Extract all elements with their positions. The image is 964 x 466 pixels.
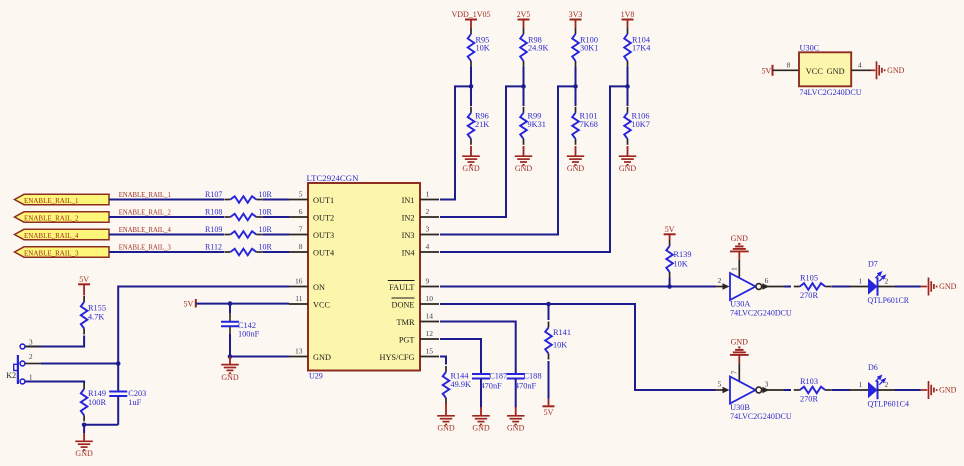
svg-text:GND: GND <box>313 353 331 362</box>
node DONE/R141 <box>546 302 551 307</box>
ic U29 LTC2924CGN <box>289 174 439 380</box>
wire R112 to U29 <box>263 251 290 253</box>
svg-text:21K: 21K <box>475 120 489 129</box>
svg-text:U30C: U30C <box>800 44 820 53</box>
svg-text:D6: D6 <box>868 363 878 372</box>
svg-text:C187: C187 <box>489 371 507 380</box>
svg-text:5V: 5V <box>665 225 675 234</box>
svg-text:TMR: TMR <box>397 318 415 327</box>
svg-text:GND: GND <box>515 164 533 173</box>
node divider 3 <box>573 84 578 89</box>
port ENABLE_RAIL_3 <box>15 247 110 258</box>
svg-text:GND: GND <box>731 234 749 243</box>
svg-text:49.9K: 49.9K <box>451 380 472 389</box>
svg-text:R144: R144 <box>451 371 470 380</box>
wire R109 to U29 <box>263 234 290 236</box>
power flag 5V (R155) <box>78 275 90 296</box>
svg-text:PGT: PGT <box>399 335 415 344</box>
resistor R109 <box>205 225 273 238</box>
svg-text:1: 1 <box>859 276 863 285</box>
ground divider 3 <box>567 146 585 173</box>
capacitor C203 <box>109 364 146 425</box>
ground (C188) <box>507 407 525 433</box>
svg-text:100nF: 100nF <box>238 329 260 338</box>
ground (C187) <box>472 407 490 433</box>
svg-text:GND: GND <box>887 66 905 75</box>
svg-text:1: 1 <box>426 189 430 198</box>
resistor R139 <box>666 240 691 287</box>
wire to IN2 <box>440 86 524 217</box>
svg-text:R155: R155 <box>88 304 106 313</box>
svg-text:QTLP601CR: QTLP601CR <box>868 296 910 305</box>
svg-text:100R: 100R <box>88 398 106 407</box>
ground divider 4 <box>619 146 637 173</box>
ground (U30A OE) <box>730 234 749 277</box>
svg-text:5: 5 <box>718 380 722 389</box>
wire K2 pin 2 <box>41 363 118 365</box>
svg-text:3V3: 3V3 <box>569 10 583 19</box>
net label ENABLE_RAIL_3 <box>119 244 171 252</box>
svg-text:4: 4 <box>426 242 430 251</box>
svg-text:ENABLE_RAIL_3: ENABLE_RAIL_3 <box>119 244 171 252</box>
svg-text:74LVC2G240DCU: 74LVC2G240DCU <box>800 88 862 97</box>
resistor R104 <box>624 28 651 67</box>
svg-text:12: 12 <box>426 329 434 338</box>
power flag 2V5 <box>517 10 531 28</box>
net label ENABLE_RAIL_4 <box>119 226 171 234</box>
net label ENABLE_RAIL_2 <box>119 209 171 217</box>
svg-text:R108: R108 <box>205 208 222 217</box>
svg-text:10R: 10R <box>259 190 273 199</box>
resistor R108 <box>205 208 273 221</box>
wire U30B to R103 <box>784 389 791 391</box>
svg-text:C188: C188 <box>524 371 542 380</box>
net label ENABLE_RAIL_1 <box>119 191 171 199</box>
wire TMR to C188 <box>440 322 516 370</box>
wire 2V5 divider <box>523 67 525 86</box>
ground (D7) <box>929 278 957 296</box>
ground divider 2 <box>515 146 533 173</box>
svg-text:DONE: DONE <box>391 300 414 309</box>
ground (C142) <box>221 357 239 382</box>
svg-text:GND: GND <box>939 282 957 291</box>
svg-text:3: 3 <box>765 380 769 389</box>
svg-text:GND: GND <box>437 424 455 433</box>
svg-text:R112: R112 <box>205 243 222 252</box>
svg-text:9K31: 9K31 <box>528 120 546 129</box>
wire R103 to D6 <box>831 389 850 391</box>
svg-text:VCC: VCC <box>806 67 824 76</box>
node R149/C203 <box>82 423 87 434</box>
wire GND pin 13 <box>230 356 289 358</box>
svg-text:GND: GND <box>507 424 525 433</box>
power flag 5V (U30C) <box>762 65 773 76</box>
svg-text:10: 10 <box>426 294 434 303</box>
op-amp U30A <box>716 267 792 318</box>
node divider 4 <box>625 84 630 89</box>
svg-text:470nF: 470nF <box>515 381 537 390</box>
resistor R100 <box>572 28 598 67</box>
ground (R149) <box>75 433 93 458</box>
svg-text:LTC2924CGN: LTC2924CGN <box>307 174 359 183</box>
svg-text:1V8: 1V8 <box>621 10 635 19</box>
op-amp U30B <box>716 370 792 421</box>
svg-text:ENABLE_RAIL_2: ENABLE_RAIL_2 <box>119 209 171 217</box>
svg-text:OUT2: OUT2 <box>313 213 334 222</box>
svg-text:IN2: IN2 <box>402 213 415 222</box>
ground (U30B OE) <box>730 338 749 381</box>
svg-text:K2: K2 <box>6 371 16 380</box>
power flag 5V (R141) <box>543 361 555 417</box>
svg-text:5: 5 <box>299 189 303 198</box>
power flag 5V (VCC) <box>184 299 196 308</box>
node VCC/C142 <box>228 301 233 306</box>
svg-text:2: 2 <box>718 276 722 285</box>
svg-text:17K4: 17K4 <box>632 43 651 52</box>
svg-text:270R: 270R <box>800 291 818 300</box>
svg-text:IN3: IN3 <box>402 231 415 240</box>
svg-text:U29: U29 <box>309 371 323 380</box>
svg-text:2: 2 <box>885 380 889 389</box>
svg-text:GND: GND <box>221 373 239 382</box>
wire to IN4 <box>440 86 628 252</box>
wire PGT to C187 <box>440 339 481 369</box>
svg-text:ENABLE_RAIL_1: ENABLE_RAIL_1 <box>119 191 171 199</box>
svg-text:5V: 5V <box>79 275 89 284</box>
svg-text:C203: C203 <box>128 389 146 398</box>
node C142/GND <box>228 354 233 359</box>
svg-text:10K: 10K <box>553 340 567 349</box>
svg-text:OUT1: OUT1 <box>313 196 334 205</box>
svg-text:D7: D7 <box>868 259 878 268</box>
svg-text:5V: 5V <box>762 67 772 76</box>
port ENABLE_RAIL_4 <box>15 229 110 240</box>
wire D7 to GND <box>895 286 927 288</box>
wire R107 to U29 <box>263 199 290 201</box>
svg-text:1: 1 <box>730 267 739 271</box>
port ENABLE_RAIL_2 <box>15 212 110 223</box>
svg-text:ENABLE_RAIL_4: ENABLE_RAIL_4 <box>119 226 171 234</box>
svg-text:9: 9 <box>426 276 430 285</box>
ground divider 1 <box>462 146 480 173</box>
svg-text:74LVC2G240DCU: 74LVC2G240DCU <box>730 412 792 421</box>
svg-text:ENABLE_RAIL_2: ENABLE_RAIL_2 <box>24 214 79 223</box>
svg-text:VDD_1V05: VDD_1V05 <box>451 10 490 19</box>
svg-text:10R: 10R <box>259 243 273 252</box>
svg-text:10K: 10K <box>674 260 688 269</box>
wire 3V3 divider <box>575 67 577 86</box>
resistor R96 <box>468 86 490 144</box>
resistor R155 <box>81 296 106 335</box>
capacitor C142 <box>221 304 260 357</box>
svg-text:U30A: U30A <box>730 300 750 309</box>
wire to IN3 <box>440 86 576 234</box>
svg-text:13: 13 <box>295 346 303 355</box>
resistor R141 <box>545 304 571 360</box>
ground (R144) <box>437 403 455 433</box>
wire VCC net <box>196 303 289 305</box>
svg-text:11: 11 <box>295 294 302 303</box>
svg-text:2: 2 <box>29 352 33 361</box>
svg-text:8: 8 <box>299 242 303 251</box>
resistor R101 <box>572 86 598 144</box>
resistor R106 <box>624 86 650 144</box>
svg-text:QTLP601C4: QTLP601C4 <box>868 399 910 408</box>
wire R108 to U29 <box>263 216 290 218</box>
svg-text:R141: R141 <box>553 328 571 337</box>
svg-text:U30B: U30B <box>730 403 750 412</box>
svg-text:OUT4: OUT4 <box>313 248 335 257</box>
svg-text:ENABLE_RAIL_1: ENABLE_RAIL_1 <box>24 196 79 205</box>
svg-text:R103: R103 <box>800 377 818 386</box>
wire VDD_1V05 divider <box>470 67 472 86</box>
svg-text:1uF: 1uF <box>128 398 141 407</box>
svg-text:7: 7 <box>730 370 739 374</box>
power flag 5V (R139) <box>664 225 676 240</box>
port ENABLE_RAIL_1 <box>15 194 110 205</box>
svg-text:IN1: IN1 <box>402 196 415 205</box>
svg-text:1: 1 <box>859 380 863 389</box>
wire DONE net <box>440 304 716 390</box>
svg-text:470nF: 470nF <box>481 381 503 390</box>
ground (U30C) <box>877 61 905 79</box>
resistor R144 <box>443 366 471 404</box>
svg-text:FAULT: FAULT <box>389 283 414 292</box>
svg-text:GND: GND <box>827 67 845 76</box>
svg-text:74LVC2G240DCU: 74LVC2G240DCU <box>730 308 792 317</box>
node divider 2 <box>521 84 526 89</box>
wire HYS/CFG to R144 <box>440 357 446 365</box>
wire U30A to R105 <box>784 286 791 288</box>
resistor R112 <box>205 243 273 256</box>
resistor R95 <box>468 28 490 67</box>
svg-text:ENABLE_RAIL_4: ENABLE_RAIL_4 <box>24 231 79 240</box>
wire FAULT net <box>440 286 716 288</box>
wire D6 to GND <box>895 389 927 391</box>
resistor R149 <box>81 383 107 421</box>
svg-text:2: 2 <box>426 207 430 216</box>
resistor R103 <box>794 377 831 404</box>
capacitor C187 <box>472 369 507 408</box>
svg-text:6: 6 <box>765 276 769 285</box>
svg-text:IN4: IN4 <box>402 248 416 257</box>
resistor R107 <box>205 190 273 203</box>
node ON/K2 <box>116 361 121 366</box>
svg-text:GND: GND <box>462 164 480 173</box>
svg-text:4.7K: 4.7K <box>88 312 104 321</box>
resistor R105 <box>794 273 831 300</box>
node divider 1 <box>469 84 474 89</box>
wire R105 to D7 <box>831 286 850 288</box>
svg-text:R109: R109 <box>205 225 222 234</box>
ground (D6) <box>929 381 957 399</box>
svg-text:15: 15 <box>426 346 434 355</box>
power flag VDD_1V05 <box>451 10 490 28</box>
svg-text:6: 6 <box>299 207 303 216</box>
svg-text:GND: GND <box>567 164 585 173</box>
switch K2 <box>6 338 41 384</box>
svg-text:2V5: 2V5 <box>517 10 531 19</box>
svg-text:4: 4 <box>858 60 862 69</box>
capacitor C188 <box>507 369 542 408</box>
wire to IN1 <box>440 86 471 199</box>
wire ENABLE_RAIL_1 <box>109 199 224 201</box>
svg-text:GND: GND <box>939 386 957 395</box>
led D7 <box>850 259 910 304</box>
svg-text:3: 3 <box>29 338 33 347</box>
svg-text:R105: R105 <box>800 273 818 282</box>
wire R155 to K2 pin 3 <box>25 336 84 347</box>
svg-text:270R: 270R <box>800 394 818 403</box>
node FAULT/R139 <box>667 284 672 289</box>
svg-text:2: 2 <box>885 276 889 285</box>
svg-text:ON: ON <box>313 283 325 292</box>
svg-text:10K: 10K <box>476 43 490 52</box>
led D6 <box>850 363 909 408</box>
wire 1V8 divider <box>627 67 629 86</box>
wire K2 pin 1 to R149 <box>25 382 84 384</box>
svg-text:10R: 10R <box>259 208 273 217</box>
svg-text:10R: 10R <box>259 225 273 234</box>
svg-text:5V: 5V <box>184 299 194 308</box>
svg-text:GND: GND <box>619 164 637 173</box>
ic U30C <box>773 44 876 97</box>
svg-text:R139: R139 <box>674 250 692 259</box>
power flag 3V3 <box>569 10 583 28</box>
resistor R99 <box>520 86 546 144</box>
svg-text:5V: 5V <box>544 408 554 417</box>
svg-text:GND: GND <box>472 424 490 433</box>
svg-text:7K68: 7K68 <box>580 120 598 129</box>
svg-text:24.9K: 24.9K <box>528 43 549 52</box>
svg-text:VCC: VCC <box>313 300 331 309</box>
svg-text:OUT3: OUT3 <box>313 231 334 240</box>
wire C203 to R149 <box>84 424 118 426</box>
svg-text:3: 3 <box>426 224 430 233</box>
svg-text:GND: GND <box>731 338 749 347</box>
power flag 1V8 <box>621 10 635 28</box>
svg-text:7: 7 <box>299 224 303 233</box>
svg-text:GND: GND <box>75 449 93 458</box>
resistor R98 <box>520 28 548 67</box>
svg-text:HYS/CFG: HYS/CFG <box>379 353 414 362</box>
wire ON net <box>118 287 289 364</box>
svg-text:30K1: 30K1 <box>580 43 598 52</box>
svg-text:16: 16 <box>295 276 303 285</box>
svg-text:10K7: 10K7 <box>632 120 650 129</box>
svg-text:1: 1 <box>29 372 33 381</box>
wire ENABLE_RAIL_3 <box>109 251 224 253</box>
svg-text:14: 14 <box>426 311 434 320</box>
wire ENABLE_RAIL_2 <box>109 216 224 218</box>
svg-text:8: 8 <box>787 60 791 69</box>
svg-text:R149: R149 <box>88 389 106 398</box>
svg-text:ENABLE_RAIL_3: ENABLE_RAIL_3 <box>24 249 79 258</box>
wire ENABLE_RAIL_4 <box>109 234 224 236</box>
svg-text:R107: R107 <box>205 190 222 199</box>
